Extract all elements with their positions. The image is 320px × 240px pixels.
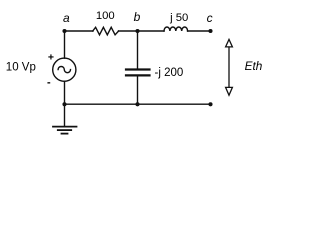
wire: resistor to node b xyxy=(119,30,138,32)
Eth arrowhead top xyxy=(226,39,233,47)
bottom-middle junction dot xyxy=(135,102,139,106)
svg-text:j 50: j 50 xyxy=(169,12,188,24)
wire bottom rail xyxy=(65,103,211,105)
AC voltage source circle xyxy=(53,58,76,81)
ground bar 1 xyxy=(53,126,77,128)
wire: inductor to node c xyxy=(188,30,211,32)
svg-text:-j 200: -j 200 xyxy=(155,67,184,79)
svg-text:b: b xyxy=(134,10,141,24)
sine symbol inside source xyxy=(58,66,70,72)
wire: node b to inductor xyxy=(138,30,165,32)
svg-text:+: + xyxy=(48,51,54,63)
capacitor C -j200 bottom plate xyxy=(126,74,150,76)
svg-text:c: c xyxy=(207,11,213,25)
node b junction dot xyxy=(135,29,139,33)
ground bar 3 xyxy=(62,133,68,135)
node a junction dot xyxy=(62,29,66,33)
svg-text:10 Vp: 10 Vp xyxy=(6,62,36,74)
bottom-right junction dot xyxy=(208,102,212,106)
inductor L j50 xyxy=(164,27,188,31)
Eth arrow shaft xyxy=(228,47,230,88)
wire: source bottom to bottom rail xyxy=(64,81,66,104)
bottom-left junction dot xyxy=(62,102,66,106)
node c junction dot xyxy=(208,29,212,33)
capacitor C -j200 top plate xyxy=(126,68,150,70)
wire: ground stem xyxy=(64,104,66,126)
wire top: node a to resistor xyxy=(65,30,94,32)
Eth arrowhead bottom xyxy=(226,87,233,95)
wire: capacitor to bottom rail xyxy=(137,77,139,105)
svg-text:a: a xyxy=(63,11,70,25)
wire: node a down to source top xyxy=(64,31,66,58)
ground bar 2 xyxy=(58,129,71,131)
svg-text:Eth: Eth xyxy=(245,59,263,73)
wire: node b down to capacitor xyxy=(137,31,139,68)
resistor R 100 xyxy=(93,27,119,35)
svg-text:100: 100 xyxy=(96,10,115,22)
svg-text:-: - xyxy=(47,77,51,89)
